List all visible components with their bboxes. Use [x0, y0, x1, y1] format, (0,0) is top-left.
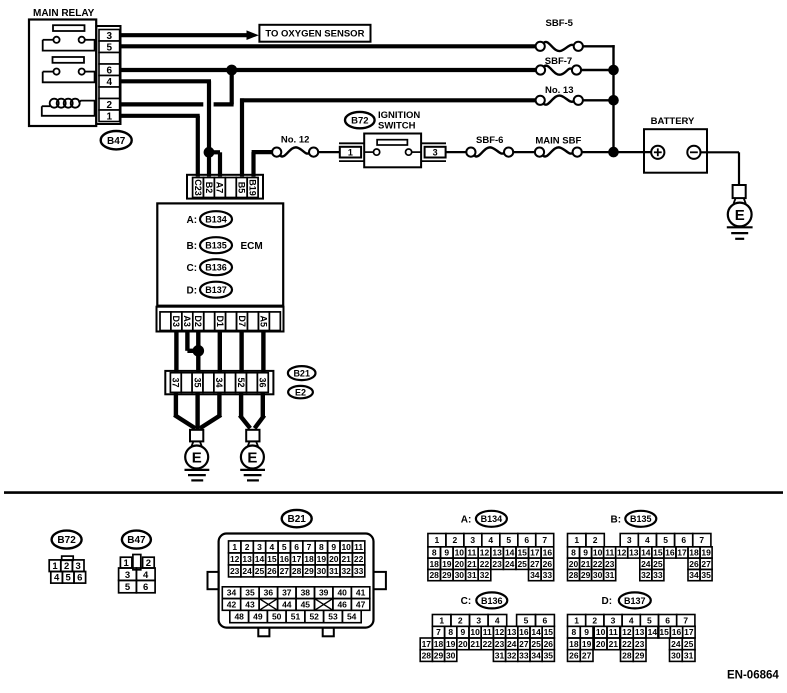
- ECM U2 box: [157, 203, 283, 305]
- relay coil: [42, 99, 96, 116]
- svg-text:D2: D2: [193, 315, 203, 327]
- svg-text:4: 4: [107, 77, 113, 88]
- ECM connector label A: B134: [187, 211, 233, 227]
- wire relay pin 1 down to ECM C23: [120, 116, 200, 177]
- svg-text:51: 51: [291, 612, 301, 622]
- svg-text:B136: B136: [481, 596, 503, 606]
- fuse MAIN SBF: [535, 135, 582, 156]
- svg-text:31: 31: [467, 570, 477, 580]
- wire ECM D3 to pin 37: [174, 331, 178, 373]
- svg-text:E: E: [247, 449, 257, 466]
- svg-text:7: 7: [307, 542, 312, 552]
- svg-text:10: 10: [596, 627, 606, 637]
- connector A B134 layout label: [461, 511, 507, 527]
- svg-text:24: 24: [507, 639, 517, 649]
- svg-text:2: 2: [458, 616, 463, 626]
- svg-text:17: 17: [530, 548, 540, 558]
- svg-text:6: 6: [524, 535, 529, 545]
- label IGNITION SWITCH: [378, 110, 420, 132]
- svg-text:15: 15: [659, 627, 669, 637]
- svg-text:2: 2: [453, 535, 458, 545]
- wire No. 13 line: [240, 98, 536, 102]
- svg-text:1: 1: [574, 616, 579, 626]
- svg-text:17: 17: [422, 639, 432, 649]
- ECM top connector shell: [187, 175, 263, 199]
- svg-text:27: 27: [519, 639, 529, 649]
- svg-text:SBF-7: SBF-7: [545, 56, 572, 67]
- svg-text:27: 27: [582, 651, 592, 661]
- svg-text:4: 4: [645, 535, 650, 545]
- svg-text:7: 7: [699, 535, 704, 545]
- connector B21 pin grid rows 1-33: [229, 541, 365, 577]
- svg-text:29: 29: [434, 651, 444, 661]
- svg-text:B5: B5: [236, 182, 246, 194]
- svg-text:B47: B47: [127, 535, 146, 546]
- svg-text:A7: A7: [215, 182, 225, 194]
- svg-text:2: 2: [107, 100, 113, 111]
- svg-text:29: 29: [635, 651, 645, 661]
- svg-text:45: 45: [301, 600, 311, 610]
- svg-text:30: 30: [446, 651, 456, 661]
- svg-text:48: 48: [234, 612, 244, 622]
- svg-text:3: 3: [125, 570, 130, 581]
- wire pin 52 to ground 2: [240, 392, 251, 428]
- battery ground E terminal: [728, 198, 752, 226]
- svg-text:D7: D7: [237, 315, 247, 327]
- wire relay pin 6 to SBF-7: [120, 68, 536, 72]
- svg-text:8: 8: [319, 542, 324, 552]
- svg-text:3: 3: [611, 616, 616, 626]
- svg-text:19: 19: [442, 559, 452, 569]
- svg-text:15: 15: [517, 548, 527, 558]
- wire ECM D2 to pin 35: [196, 331, 200, 373]
- svg-text:44: 44: [282, 600, 292, 610]
- svg-text:34: 34: [689, 570, 699, 580]
- svg-text:53: 53: [328, 612, 338, 622]
- svg-text:4: 4: [629, 616, 634, 626]
- svg-text:B:: B:: [611, 515, 622, 526]
- svg-text:7: 7: [683, 616, 688, 626]
- svg-text:BATTERY: BATTERY: [651, 116, 695, 127]
- svg-text:18: 18: [689, 548, 699, 558]
- svg-text:A3: A3: [182, 315, 192, 327]
- right bus vertical wire: [612, 45, 614, 152]
- junction dot A3/D2: [193, 345, 205, 357]
- svg-text:28: 28: [569, 570, 579, 580]
- svg-text:6: 6: [107, 65, 113, 76]
- wire MAIN SBF to battery: [582, 151, 651, 153]
- svg-text:1: 1: [124, 558, 130, 569]
- junction node pin6/pin2: [226, 65, 237, 76]
- svg-text:36: 36: [264, 588, 274, 598]
- svg-text:33: 33: [519, 651, 529, 661]
- svg-text:2: 2: [593, 535, 598, 545]
- svg-text:11: 11: [605, 548, 614, 558]
- ground 2 connector box: [246, 430, 259, 442]
- svg-text:C:: C:: [187, 263, 198, 274]
- svg-text:19: 19: [446, 639, 456, 649]
- connector B21 pin grid rows 34-47: [222, 587, 369, 611]
- svg-text:1: 1: [574, 535, 579, 545]
- svg-text:SBF-5: SBF-5: [546, 18, 574, 29]
- fuse SBF-7: [536, 56, 581, 75]
- svg-text:8: 8: [572, 627, 577, 637]
- wire ignition to SBF-6: [446, 151, 467, 153]
- svg-text:24: 24: [505, 559, 515, 569]
- ignition switch contacts: [364, 149, 421, 155]
- junction dot B2/A7 branch: [204, 147, 215, 158]
- svg-text:MAIN SBF: MAIN SBF: [535, 135, 581, 146]
- connector B134 pin grid: [428, 534, 554, 581]
- svg-text:3: 3: [627, 535, 632, 545]
- svg-text:4: 4: [488, 535, 493, 545]
- main relay connector pin column: [96, 26, 120, 124]
- svg-text:42: 42: [227, 600, 237, 610]
- svg-text:12: 12: [480, 548, 490, 558]
- wire relay pin 2 segment: [120, 102, 203, 106]
- svg-text:5: 5: [524, 616, 529, 626]
- svg-text:52: 52: [236, 377, 246, 387]
- junction dot SBF-7 bus: [608, 65, 619, 76]
- ECM connector label C: B136: [187, 259, 233, 275]
- svg-text:39: 39: [319, 588, 329, 598]
- TO OXYGEN SENSOR box: [259, 25, 370, 42]
- svg-text:26: 26: [543, 559, 553, 569]
- svg-text:MAIN RELAY: MAIN RELAY: [33, 8, 95, 19]
- svg-text:19: 19: [701, 548, 711, 558]
- svg-text:13: 13: [492, 548, 502, 558]
- svg-text:34: 34: [530, 570, 540, 580]
- connector B72 pin layout label: [52, 531, 82, 549]
- svg-text:28: 28: [422, 651, 432, 661]
- svg-text:31: 31: [605, 570, 615, 580]
- svg-text:16: 16: [665, 548, 675, 558]
- svg-text:10: 10: [470, 627, 480, 637]
- svg-text:54: 54: [347, 612, 357, 622]
- svg-text:3: 3: [470, 535, 475, 545]
- svg-text:13: 13: [242, 554, 252, 564]
- svg-text:IGNITION: IGNITION: [378, 110, 420, 121]
- wire ECM B19 to fuse No. 12: [252, 152, 273, 176]
- battery ground symbol: [727, 227, 753, 239]
- ignition connector pin box 1: [339, 143, 364, 161]
- svg-text:14: 14: [531, 627, 541, 637]
- wire pin 35 to ground 1: [195, 392, 199, 429]
- svg-text:25: 25: [653, 559, 663, 569]
- svg-text:B137: B137: [205, 285, 227, 295]
- svg-text:35: 35: [245, 588, 255, 598]
- svg-text:5: 5: [107, 42, 113, 53]
- svg-text:10: 10: [341, 542, 351, 552]
- svg-text:28: 28: [622, 651, 632, 661]
- svg-text:2: 2: [245, 542, 250, 552]
- svg-text:22: 22: [593, 559, 603, 569]
- svg-text:6: 6: [77, 573, 82, 584]
- svg-text:1: 1: [232, 542, 237, 552]
- svg-text:3: 3: [476, 616, 481, 626]
- relay contact 2 top bar: [53, 57, 85, 63]
- wire relay pin 5 to SBF-5: [120, 44, 536, 48]
- svg-text:30: 30: [671, 651, 681, 661]
- label EN-06864: [727, 669, 779, 681]
- svg-text:4: 4: [54, 573, 60, 584]
- svg-text:8: 8: [432, 548, 437, 558]
- wire pin 2 jog to pin6 junction: [214, 70, 234, 104]
- fuse SBF-5: [536, 18, 583, 51]
- svg-text:D1: D1: [215, 315, 225, 327]
- svg-text:28: 28: [292, 566, 302, 576]
- svg-text:43: 43: [245, 600, 255, 610]
- svg-text:30: 30: [593, 570, 603, 580]
- relay contact 1: [43, 37, 96, 51]
- svg-text:5: 5: [663, 535, 668, 545]
- svg-text:23: 23: [495, 639, 505, 649]
- svg-text:1: 1: [435, 535, 440, 545]
- svg-text:4: 4: [495, 616, 500, 626]
- connector B21 housing: [208, 534, 386, 637]
- svg-text:16: 16: [543, 548, 553, 558]
- svg-text:E2: E2: [295, 388, 306, 398]
- label MAIN RELAY: [33, 8, 95, 19]
- svg-text:1: 1: [52, 561, 58, 572]
- svg-text:B47: B47: [107, 136, 126, 147]
- svg-text:6: 6: [294, 542, 299, 552]
- svg-text:B136: B136: [205, 263, 227, 273]
- svg-text:33: 33: [354, 566, 364, 576]
- svg-text:6: 6: [665, 616, 670, 626]
- svg-text:20: 20: [455, 559, 465, 569]
- svg-text:B135: B135: [630, 514, 652, 524]
- wire relay pin 3 to oxygen sensor arrow: [120, 33, 247, 37]
- connector B21 pin grid rows 48-54: [230, 610, 361, 622]
- svg-text:18: 18: [569, 639, 579, 649]
- svg-text:15: 15: [653, 548, 663, 558]
- svg-text:7: 7: [542, 535, 547, 545]
- svg-text:2: 2: [146, 558, 151, 569]
- svg-text:26: 26: [569, 651, 579, 661]
- svg-text:8: 8: [448, 627, 453, 637]
- relay contact 1 top bar: [53, 25, 85, 31]
- svg-text:20: 20: [458, 639, 468, 649]
- svg-text:TO OXYGEN SENSOR: TO OXYGEN SENSOR: [265, 28, 364, 39]
- svg-text:C:: C:: [461, 596, 472, 607]
- svg-text:26: 26: [689, 559, 699, 569]
- svg-text:9: 9: [331, 542, 336, 552]
- svg-text:25: 25: [531, 639, 541, 649]
- svg-text:50: 50: [272, 612, 282, 622]
- svg-text:4: 4: [270, 542, 275, 552]
- svg-text:5: 5: [282, 542, 287, 552]
- svg-text:31: 31: [329, 566, 339, 576]
- svg-text:37: 37: [171, 377, 181, 387]
- svg-text:13: 13: [507, 627, 517, 637]
- relay contact 2: [43, 69, 96, 83]
- ignition switch U1 box: [364, 134, 421, 168]
- connector B47 pin grid: [119, 555, 155, 594]
- svg-text:24: 24: [641, 559, 651, 569]
- arrowhead to oxygen sensor: [247, 30, 259, 40]
- svg-text:29: 29: [304, 566, 314, 576]
- svg-text:SWITCH: SWITCH: [378, 121, 416, 132]
- wire pin 37 to ground 1: [174, 392, 195, 428]
- wire pin 36 to ground 2: [255, 392, 265, 428]
- svg-text:30: 30: [317, 566, 327, 576]
- svg-text:16: 16: [519, 627, 529, 637]
- svg-text:9: 9: [444, 548, 449, 558]
- svg-text:15: 15: [544, 627, 554, 637]
- svg-text:31: 31: [495, 651, 505, 661]
- svg-text:12: 12: [622, 627, 632, 637]
- svg-text:SBF-6: SBF-6: [476, 135, 503, 146]
- wire ECM D7 to pin 52: [239, 331, 243, 373]
- svg-text:13: 13: [629, 548, 639, 558]
- svg-text:38: 38: [301, 588, 311, 598]
- svg-text:B2: B2: [204, 182, 214, 194]
- svg-text:40: 40: [337, 588, 347, 598]
- svg-text:3: 3: [107, 31, 113, 42]
- connector B137 pin grid: [568, 615, 696, 662]
- svg-text:36: 36: [258, 377, 268, 387]
- svg-text:3: 3: [433, 148, 438, 158]
- svg-text:1: 1: [439, 616, 444, 626]
- svg-text:B72: B72: [351, 116, 368, 127]
- connector B B135 layout label: [611, 511, 657, 527]
- svg-text:22: 22: [622, 639, 632, 649]
- svg-text:10: 10: [455, 548, 465, 558]
- wire SBF-6 to MAIN SBF: [513, 151, 535, 153]
- wire battery minus to ground connector: [701, 152, 740, 185]
- svg-text:20: 20: [329, 554, 339, 564]
- svg-text:16: 16: [672, 627, 682, 637]
- svg-text:11: 11: [609, 627, 618, 637]
- svg-text:26: 26: [267, 566, 277, 576]
- wire pin 34 to ground 1: [200, 392, 221, 428]
- svg-text:24: 24: [242, 566, 252, 576]
- wire ECM A3 to junction: [187, 331, 197, 351]
- svg-text:32: 32: [480, 570, 490, 580]
- svg-text:29: 29: [442, 570, 452, 580]
- svg-text:12: 12: [230, 554, 240, 564]
- svg-text:17: 17: [677, 548, 687, 558]
- junction dot No. 13 bus: [608, 95, 619, 106]
- svg-text:46: 46: [337, 600, 347, 610]
- svg-text:52: 52: [309, 612, 319, 622]
- svg-text:23: 23: [230, 566, 240, 576]
- svg-text:18: 18: [429, 559, 439, 569]
- svg-text:34: 34: [531, 651, 541, 661]
- svg-text:21: 21: [581, 559, 591, 569]
- ground connector pins 37 35 34 52 36: [170, 373, 268, 393]
- svg-text:18: 18: [304, 554, 314, 564]
- svg-text:B134: B134: [205, 215, 227, 225]
- connector label B21 ellipse: [288, 366, 316, 380]
- ground 2 E terminal: [241, 441, 264, 468]
- connector label B72 ellipse: [345, 112, 375, 128]
- svg-text:19: 19: [317, 554, 327, 564]
- ignition switch inner bar: [377, 140, 407, 145]
- svg-text:6: 6: [143, 582, 148, 593]
- wire ECM D1 to pin 34: [218, 331, 222, 373]
- connector D B137 layout label: [602, 592, 651, 608]
- connector label E2 ellipse: [288, 386, 313, 398]
- svg-text:C23: C23: [193, 179, 203, 196]
- svg-text:14: 14: [641, 548, 651, 558]
- battery BT1: [644, 116, 707, 173]
- svg-text:21: 21: [467, 559, 477, 569]
- svg-text:27: 27: [701, 559, 711, 569]
- svg-text:20: 20: [569, 559, 579, 569]
- svg-text:4: 4: [143, 570, 149, 581]
- section separator line: [4, 491, 783, 494]
- svg-text:35: 35: [192, 377, 202, 387]
- svg-text:21: 21: [470, 639, 480, 649]
- svg-text:17: 17: [684, 627, 694, 637]
- svg-text:35: 35: [701, 570, 711, 580]
- ground 1 symbol: [185, 470, 210, 481]
- connector C B136 layout label: [461, 592, 508, 608]
- ground connector shell: [165, 371, 273, 394]
- svg-text:14: 14: [255, 554, 265, 564]
- svg-text:23: 23: [605, 559, 615, 569]
- svg-text:3: 3: [257, 542, 262, 552]
- battery ground connector box: [733, 185, 746, 198]
- svg-text:16: 16: [280, 554, 290, 564]
- svg-text:27: 27: [280, 566, 290, 576]
- ECM connector label D: B137: [187, 282, 233, 298]
- svg-text:11: 11: [467, 548, 476, 558]
- svg-text:B134: B134: [481, 514, 503, 524]
- svg-text:B19: B19: [247, 179, 257, 196]
- svg-text:12: 12: [495, 627, 505, 637]
- svg-text:21: 21: [341, 554, 351, 564]
- svg-text:5: 5: [125, 582, 131, 593]
- svg-text:9: 9: [584, 627, 589, 637]
- connector label B47 ellipse: [101, 131, 132, 149]
- svg-text:B72: B72: [57, 535, 76, 546]
- connector B135 pin grid: [568, 534, 713, 581]
- svg-text:9: 9: [461, 627, 466, 637]
- svg-text:No. 12: No. 12: [281, 134, 310, 145]
- svg-text:30: 30: [455, 570, 465, 580]
- wire No. 13 to right bus: [583, 99, 614, 101]
- svg-text:2: 2: [64, 561, 69, 572]
- svg-text:33: 33: [653, 570, 663, 580]
- svg-text:D:: D:: [602, 596, 613, 607]
- ground 1 E terminal: [185, 441, 208, 468]
- svg-text:25: 25: [684, 639, 694, 649]
- svg-text:11: 11: [483, 627, 492, 637]
- fuse No. 13: [536, 85, 583, 105]
- svg-text:19: 19: [582, 639, 592, 649]
- ECM bottom connector pins D3 A3 D2 D1 D7 A5: [160, 312, 280, 331]
- svg-text:14: 14: [648, 627, 658, 637]
- fuse SBF-6: [466, 135, 513, 157]
- ignition connector pin box 3: [421, 143, 446, 161]
- svg-text:21: 21: [609, 639, 619, 649]
- svg-text:20: 20: [596, 639, 606, 649]
- connector B21 layout label: [282, 510, 312, 527]
- svg-text:A:: A:: [461, 515, 472, 526]
- svg-text:41: 41: [356, 588, 366, 598]
- svg-text:5: 5: [66, 573, 72, 584]
- svg-text:22: 22: [480, 559, 490, 569]
- ECM top connector pins C23 B2 A7 B5 B19: [193, 178, 259, 198]
- svg-text:3: 3: [76, 561, 81, 572]
- svg-text:47: 47: [356, 600, 366, 610]
- svg-text:23: 23: [635, 639, 645, 649]
- svg-text:13: 13: [635, 627, 645, 637]
- svg-text:22: 22: [483, 639, 493, 649]
